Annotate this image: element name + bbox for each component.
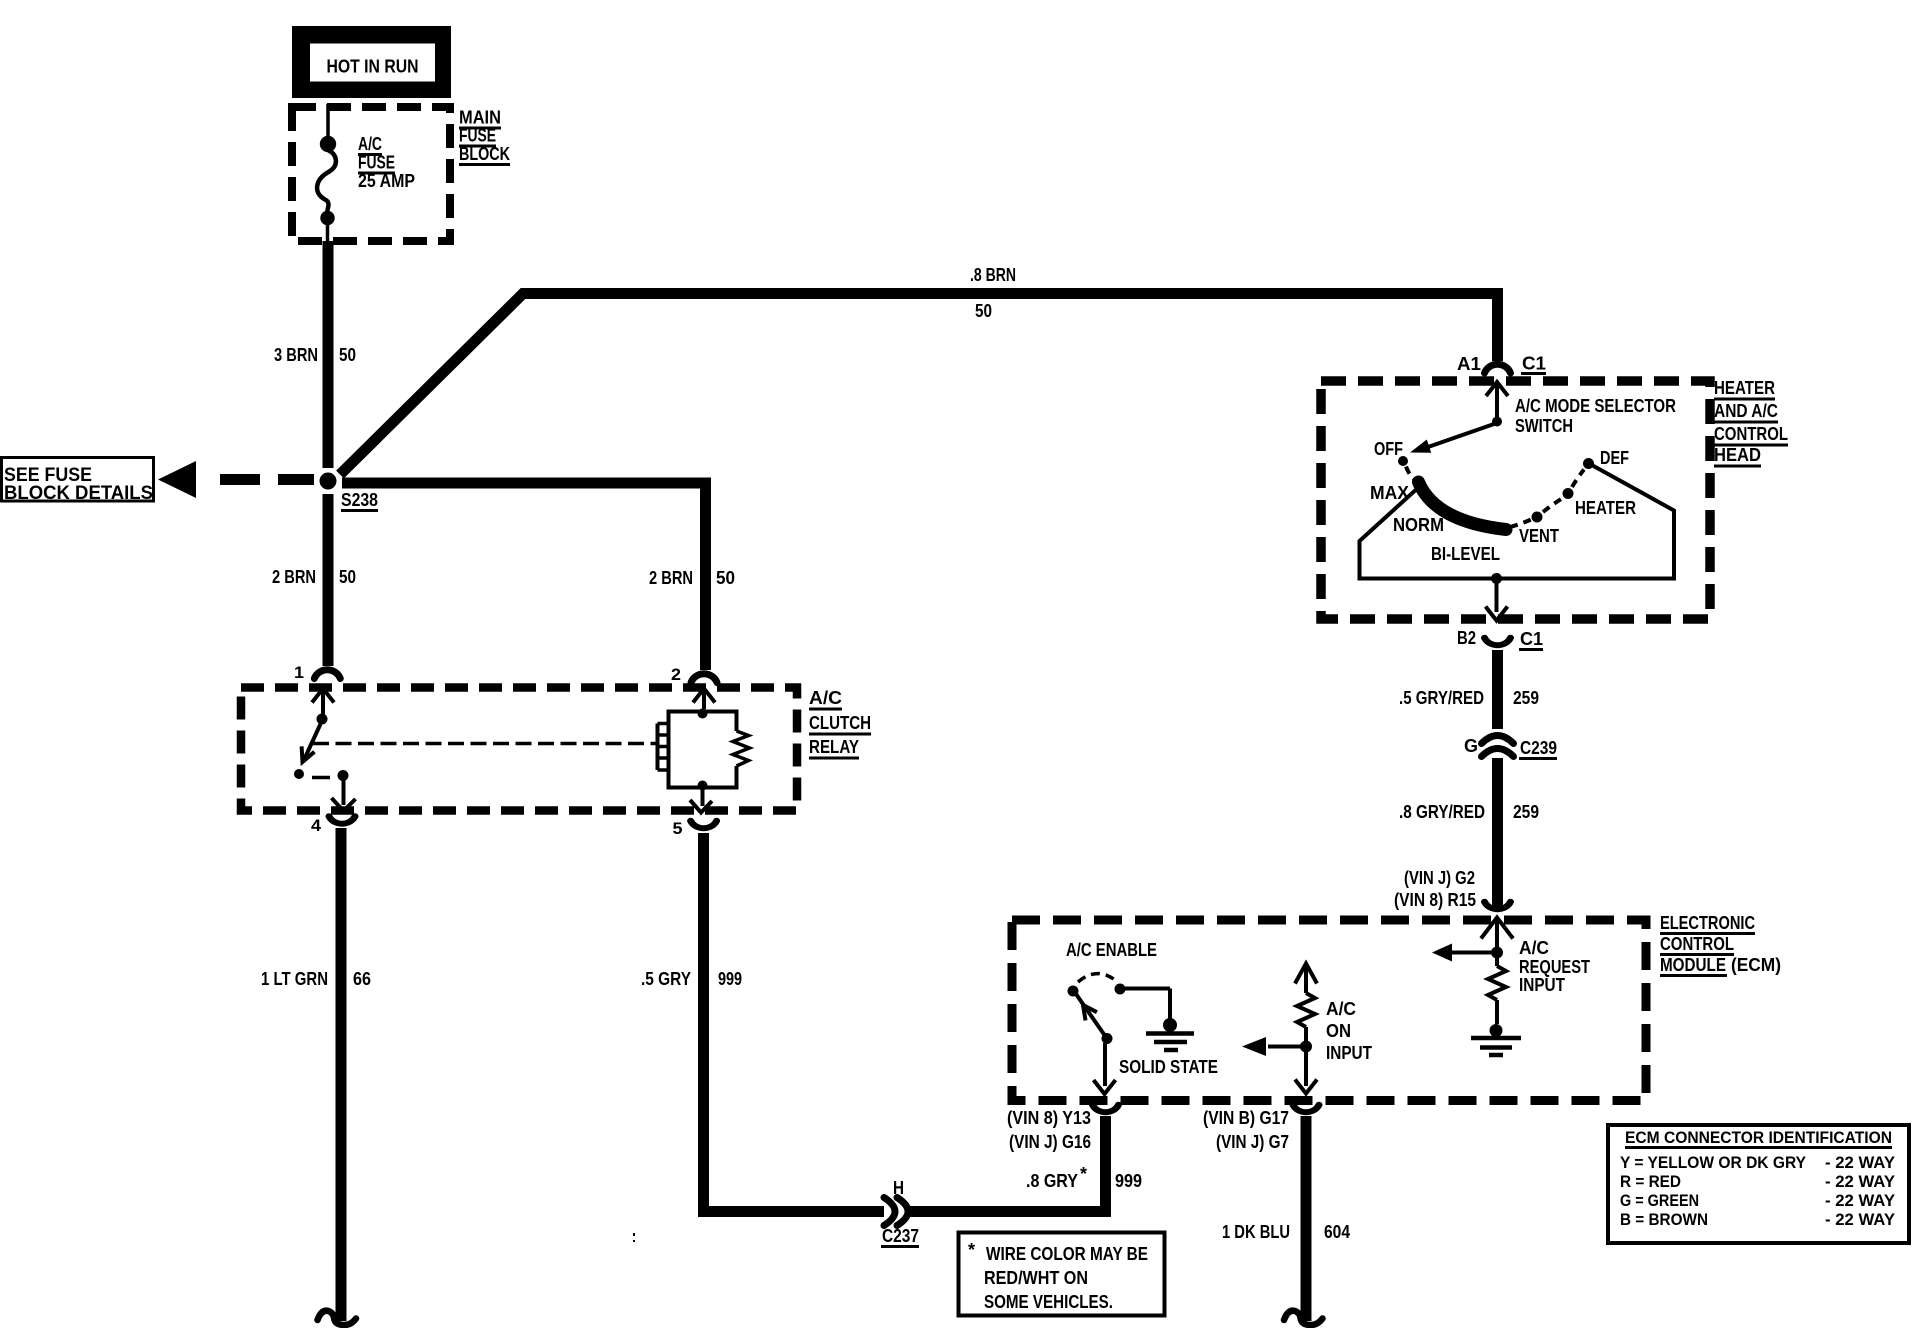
svg-text:RED/WHT ON: RED/WHT ON xyxy=(984,1268,1088,1288)
relay switch contacts xyxy=(317,714,328,725)
svg-text:(VIN 8) R15: (VIN 8) R15 xyxy=(1394,890,1476,910)
svg-text:(VIN 8) Y13: (VIN 8) Y13 xyxy=(1007,1108,1091,1128)
svg-text:C1: C1 xyxy=(1522,354,1546,374)
svg-text:.8 BRN: .8 BRN xyxy=(970,265,1016,285)
dashed OFF to MAX xyxy=(1406,467,1416,482)
svg-text:*: * xyxy=(968,1240,975,1260)
wire .8 BRN diagonal + horizontal to A1 xyxy=(340,294,1492,475)
svg-text:S238: S238 xyxy=(341,490,378,510)
dashed arc to VENT xyxy=(1510,520,1531,528)
svg-text:A/C: A/C xyxy=(1519,938,1549,958)
svg-text:H: H xyxy=(893,1178,904,1198)
svg-text:3 BRN: 3 BRN xyxy=(274,345,318,365)
selector thick arc xyxy=(1419,482,1507,530)
svg-text:A/C: A/C xyxy=(1326,999,1356,1019)
svg-text:G = GREEN: G = GREEN xyxy=(1620,1191,1699,1210)
svg-text:25 AMP: 25 AMP xyxy=(358,171,415,191)
relay coil link (dashed) xyxy=(313,742,656,746)
svg-text:ECM CONNECTOR IDENTIFICATION: ECM CONNECTOR IDENTIFICATION xyxy=(1625,1128,1892,1147)
connector C239 xyxy=(1482,736,1514,744)
ground (request) xyxy=(1490,1024,1503,1037)
svg-text:5: 5 xyxy=(673,819,683,838)
svg-text:G: G xyxy=(1464,736,1478,756)
svg-text:WIRE COLOR MAY BE: WIRE COLOR MAY BE xyxy=(986,1244,1148,1264)
relay box xyxy=(241,688,797,811)
position DEF xyxy=(1583,458,1594,469)
svg-text:SOLID STATE: SOLID STATE xyxy=(1119,1057,1218,1077)
svg-text:HEAD: HEAD xyxy=(1714,445,1761,465)
wire .8 GRY 999 xyxy=(910,1206,1111,1217)
svg-text:2 BRN: 2 BRN xyxy=(272,567,316,587)
svg-text:FUSE: FUSE xyxy=(459,126,496,146)
hook end left xyxy=(318,1311,357,1325)
svg-text:CONTROL: CONTROL xyxy=(1714,424,1788,444)
svg-text:C1: C1 xyxy=(1520,629,1543,649)
main fuse block box xyxy=(292,107,450,241)
svg-text:A/C: A/C xyxy=(809,688,842,708)
position OFF xyxy=(1398,456,1408,466)
speckle xyxy=(633,1233,635,1236)
svg-text:C237: C237 xyxy=(882,1226,919,1246)
svg-text:HEATER: HEATER xyxy=(1714,378,1775,398)
svg-text:50: 50 xyxy=(339,345,356,365)
svg-text:1: 1 xyxy=(294,663,304,682)
svg-text:.8 GRY: .8 GRY xyxy=(1026,1171,1078,1191)
dashed VENT to HEATER xyxy=(1543,499,1562,513)
wire .8 GRY/RED 259 xyxy=(1492,758,1503,908)
wire 1 DK BLU 604 xyxy=(1301,1116,1312,1321)
svg-text:R = RED: R = RED xyxy=(1620,1172,1681,1191)
svg-text:1 DK BLU: 1 DK BLU xyxy=(1222,1222,1290,1242)
svg-text:REQUEST: REQUEST xyxy=(1519,957,1590,977)
svg-text:B2: B2 xyxy=(1457,628,1476,648)
dashed HEATER to DEF xyxy=(1572,470,1584,488)
hook end right xyxy=(1284,1311,1323,1325)
svg-text:- 22 WAY: - 22 WAY xyxy=(1825,1172,1896,1191)
svg-text:4: 4 xyxy=(311,816,322,835)
svg-text:(VIN B) G17: (VIN B) G17 xyxy=(1203,1108,1289,1128)
ECM box xyxy=(1012,920,1646,1101)
note box wire color xyxy=(959,1233,1165,1316)
svg-text:RELAY: RELAY xyxy=(809,737,859,757)
svg-text:A/C MODE SELECTOR: A/C MODE SELECTOR xyxy=(1515,396,1676,416)
svg-text:NORM: NORM xyxy=(1393,515,1444,535)
svg-text:BLOCK DETAILS: BLOCK DETAILS xyxy=(4,483,153,504)
svg-text:.5 GRY/RED: .5 GRY/RED xyxy=(1399,688,1484,708)
svg-text:BLOCK: BLOCK xyxy=(459,144,510,164)
svg-text:A1: A1 xyxy=(1457,354,1481,374)
svg-text:- 22 WAY: - 22 WAY xyxy=(1825,1153,1896,1172)
relay coil xyxy=(703,712,737,732)
wire S238 right to relay pin 2 xyxy=(342,483,706,488)
svg-text:SOME VEHICLES.: SOME VEHICLES. xyxy=(984,1292,1113,1312)
svg-text:ON: ON xyxy=(1326,1021,1351,1041)
wire .5 GRY 999 xyxy=(698,833,709,1217)
control head box xyxy=(1321,381,1710,619)
svg-text:C239: C239 xyxy=(1520,738,1557,758)
svg-text:(VIN J) G7: (VIN J) G7 xyxy=(1216,1132,1289,1152)
svg-text:*: * xyxy=(1080,1164,1087,1184)
svg-text:DEF: DEF xyxy=(1600,448,1629,468)
dashed arrow to fuse block details xyxy=(158,461,196,498)
svg-text:FUSE: FUSE xyxy=(358,153,395,173)
fuse F A/C 25A xyxy=(320,136,336,152)
svg-text:VENT: VENT xyxy=(1519,526,1559,546)
ECM connector identification box xyxy=(1608,1125,1909,1243)
A/C request input xyxy=(1481,918,1513,939)
svg-text:AND A/C: AND A/C xyxy=(1714,401,1778,421)
svg-text:INPUT: INPUT xyxy=(1326,1043,1372,1063)
mode selector switch xyxy=(1492,417,1502,427)
svg-text:CONTROL: CONTROL xyxy=(1660,934,1734,954)
svg-text:A/C: A/C xyxy=(358,134,382,154)
svg-text:INPUT: INPUT xyxy=(1519,975,1565,995)
svg-text:999: 999 xyxy=(1115,1171,1142,1191)
wire S238 down to relay pin 1 xyxy=(323,494,334,666)
output node xyxy=(1491,573,1502,584)
svg-text:- 22 WAY: - 22 WAY xyxy=(1825,1191,1896,1210)
svg-text:(VIN J) G2: (VIN J) G2 xyxy=(1404,868,1475,888)
svg-text:259: 259 xyxy=(1513,802,1539,822)
wire 3 BRN 50 xyxy=(323,241,334,468)
svg-text:(ECM): (ECM) xyxy=(1731,955,1781,975)
position VENT xyxy=(1532,512,1543,523)
power box HOT IN RUN xyxy=(292,26,451,98)
see fuse block details box xyxy=(2,458,154,502)
svg-text:CLUTCH: CLUTCH xyxy=(809,713,871,733)
svg-text:HOT IN RUN: HOT IN RUN xyxy=(327,57,419,77)
position HEATER xyxy=(1563,488,1574,499)
A/C on input xyxy=(1295,964,1317,984)
node S238 xyxy=(320,473,337,490)
svg-text:B = BROWN: B = BROWN xyxy=(1620,1210,1708,1229)
resistor (request) xyxy=(1495,958,1499,966)
wire 1 LT GRN 66 xyxy=(336,828,347,1321)
svg-text:BI-LEVEL: BI-LEVEL xyxy=(1431,544,1500,564)
svg-text:SWITCH: SWITCH xyxy=(1515,416,1573,436)
svg-text:50: 50 xyxy=(716,568,735,588)
svg-text:1 LT GRN: 1 LT GRN xyxy=(261,969,328,989)
svg-text:.8 GRY/RED: .8 GRY/RED xyxy=(1399,802,1485,822)
svg-text:- 22 WAY: - 22 WAY xyxy=(1825,1210,1896,1229)
svg-text:MAIN: MAIN xyxy=(459,108,501,128)
svg-text:604: 604 xyxy=(1324,1222,1350,1242)
wire into fuse xyxy=(326,104,330,138)
svg-text:2 BRN: 2 BRN xyxy=(649,568,693,588)
svg-text:(VIN J) G16: (VIN J) G16 xyxy=(1009,1132,1091,1152)
svg-text:.5 GRY: .5 GRY xyxy=(641,969,691,989)
svg-text:259: 259 xyxy=(1513,688,1539,708)
svg-text:50: 50 xyxy=(975,301,992,321)
wire .5 GRY/RED 259 xyxy=(1492,650,1503,729)
svg-text:999: 999 xyxy=(718,969,742,989)
svg-text:MODULE: MODULE xyxy=(1660,955,1726,975)
svg-text:Y = YELLOW OR DK GRY: Y = YELLOW OR DK GRY xyxy=(1620,1153,1807,1172)
svg-text:ELECTRONIC: ELECTRONIC xyxy=(1660,913,1755,933)
outline to contacts xyxy=(1360,464,1675,579)
svg-text:OFF: OFF xyxy=(1374,439,1403,459)
svg-text:66: 66 xyxy=(353,969,371,989)
svg-text:2: 2 xyxy=(671,665,681,684)
svg-text:A/C ENABLE: A/C ENABLE xyxy=(1066,940,1157,960)
svg-text:HEATER: HEATER xyxy=(1575,498,1636,518)
svg-text:50: 50 xyxy=(339,567,356,587)
connector C237 xyxy=(884,1198,895,1226)
